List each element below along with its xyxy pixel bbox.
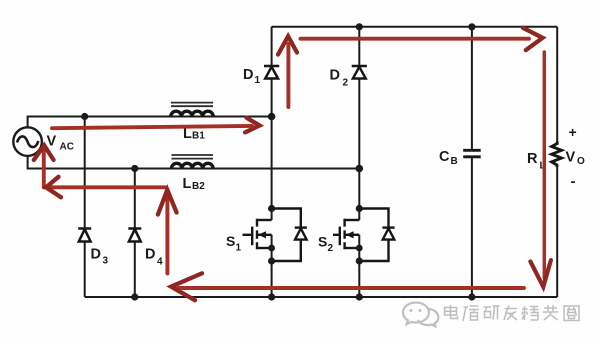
svg-text:1: 1	[255, 75, 261, 86]
wire AC bottom (to LB2 node)	[28, 156, 360, 169]
ac source VAC	[13, 127, 42, 156]
svg-text:L: L	[183, 176, 192, 192]
wire right rail upper	[556, 27, 558, 142]
svg-text:D: D	[145, 247, 155, 263]
svg-text:V: V	[566, 150, 576, 166]
wire right rail lower	[556, 167, 558, 298]
svg-text:S: S	[318, 234, 327, 250]
svg-text:2: 2	[328, 243, 334, 254]
red flow arrow top rail (rightward)	[301, 28, 543, 50]
svg-text:B2: B2	[192, 181, 205, 192]
svg-text:R: R	[527, 151, 538, 167]
red flow line mid-left with left arrowhead	[44, 177, 165, 198]
svg-text:+: +	[569, 124, 577, 140]
svg-text:D: D	[243, 67, 253, 83]
mosfet S1	[243, 219, 272, 249]
diode D4	[128, 229, 141, 242]
svg-text:B1: B1	[192, 131, 205, 142]
mosfet S2 body diode	[359, 209, 394, 262]
svg-text:1: 1	[236, 243, 242, 254]
mosfet S1 body arrow	[258, 231, 266, 238]
capacitor CB	[463, 150, 481, 157]
mosfet S1 body diode	[272, 209, 307, 262]
red flow arrow right rail RL (downward)	[530, 52, 551, 287]
junction node dots	[81, 23, 475, 300]
diode D2	[352, 66, 367, 79]
red flow arrow D1 (upward)	[278, 36, 297, 107]
inductor LB2	[172, 155, 214, 169]
watermark text 电源研发精英圈 (approximated strokes)	[445, 305, 580, 321]
wire AC top (to LB1 node)	[28, 117, 272, 128]
wire D2-S2 column	[358, 27, 360, 297]
svg-text:2: 2	[343, 78, 349, 89]
svg-text:-: -	[571, 173, 576, 190]
wire D1-S1 column	[271, 27, 273, 297]
svg-text:B: B	[451, 156, 458, 167]
inductor LB1	[171, 103, 213, 117]
wire CB column	[471, 27, 473, 297]
mosfet S2 body arrow	[346, 231, 354, 238]
svg-text:D: D	[330, 68, 340, 84]
diode D3	[78, 229, 91, 242]
mosfet S2	[333, 219, 359, 249]
svg-text:3: 3	[103, 256, 109, 267]
svg-text:4: 4	[157, 257, 163, 268]
diode D1	[264, 66, 279, 79]
svg-text:S: S	[226, 233, 235, 249]
wire top rail	[272, 26, 558, 28]
svg-text:O: O	[577, 156, 585, 167]
svg-text:V: V	[47, 134, 57, 150]
svg-text:D: D	[91, 247, 101, 263]
red flow line bottom with big left arrowhead	[171, 273, 524, 300]
svg-text:C: C	[439, 149, 450, 165]
wire D4 column	[134, 169, 136, 298]
red flow arrow VAC (upward)	[34, 145, 54, 187]
wire bottom rail	[85, 296, 558, 298]
red flow arrow D4 (upward)	[158, 190, 177, 274]
red flow arrow LB1 (rightward)	[52, 118, 260, 133]
svg-text:AC: AC	[60, 142, 74, 153]
watermark wechat logo	[403, 303, 438, 327]
wire D3 column	[84, 117, 86, 298]
resistor RL	[552, 142, 562, 168]
